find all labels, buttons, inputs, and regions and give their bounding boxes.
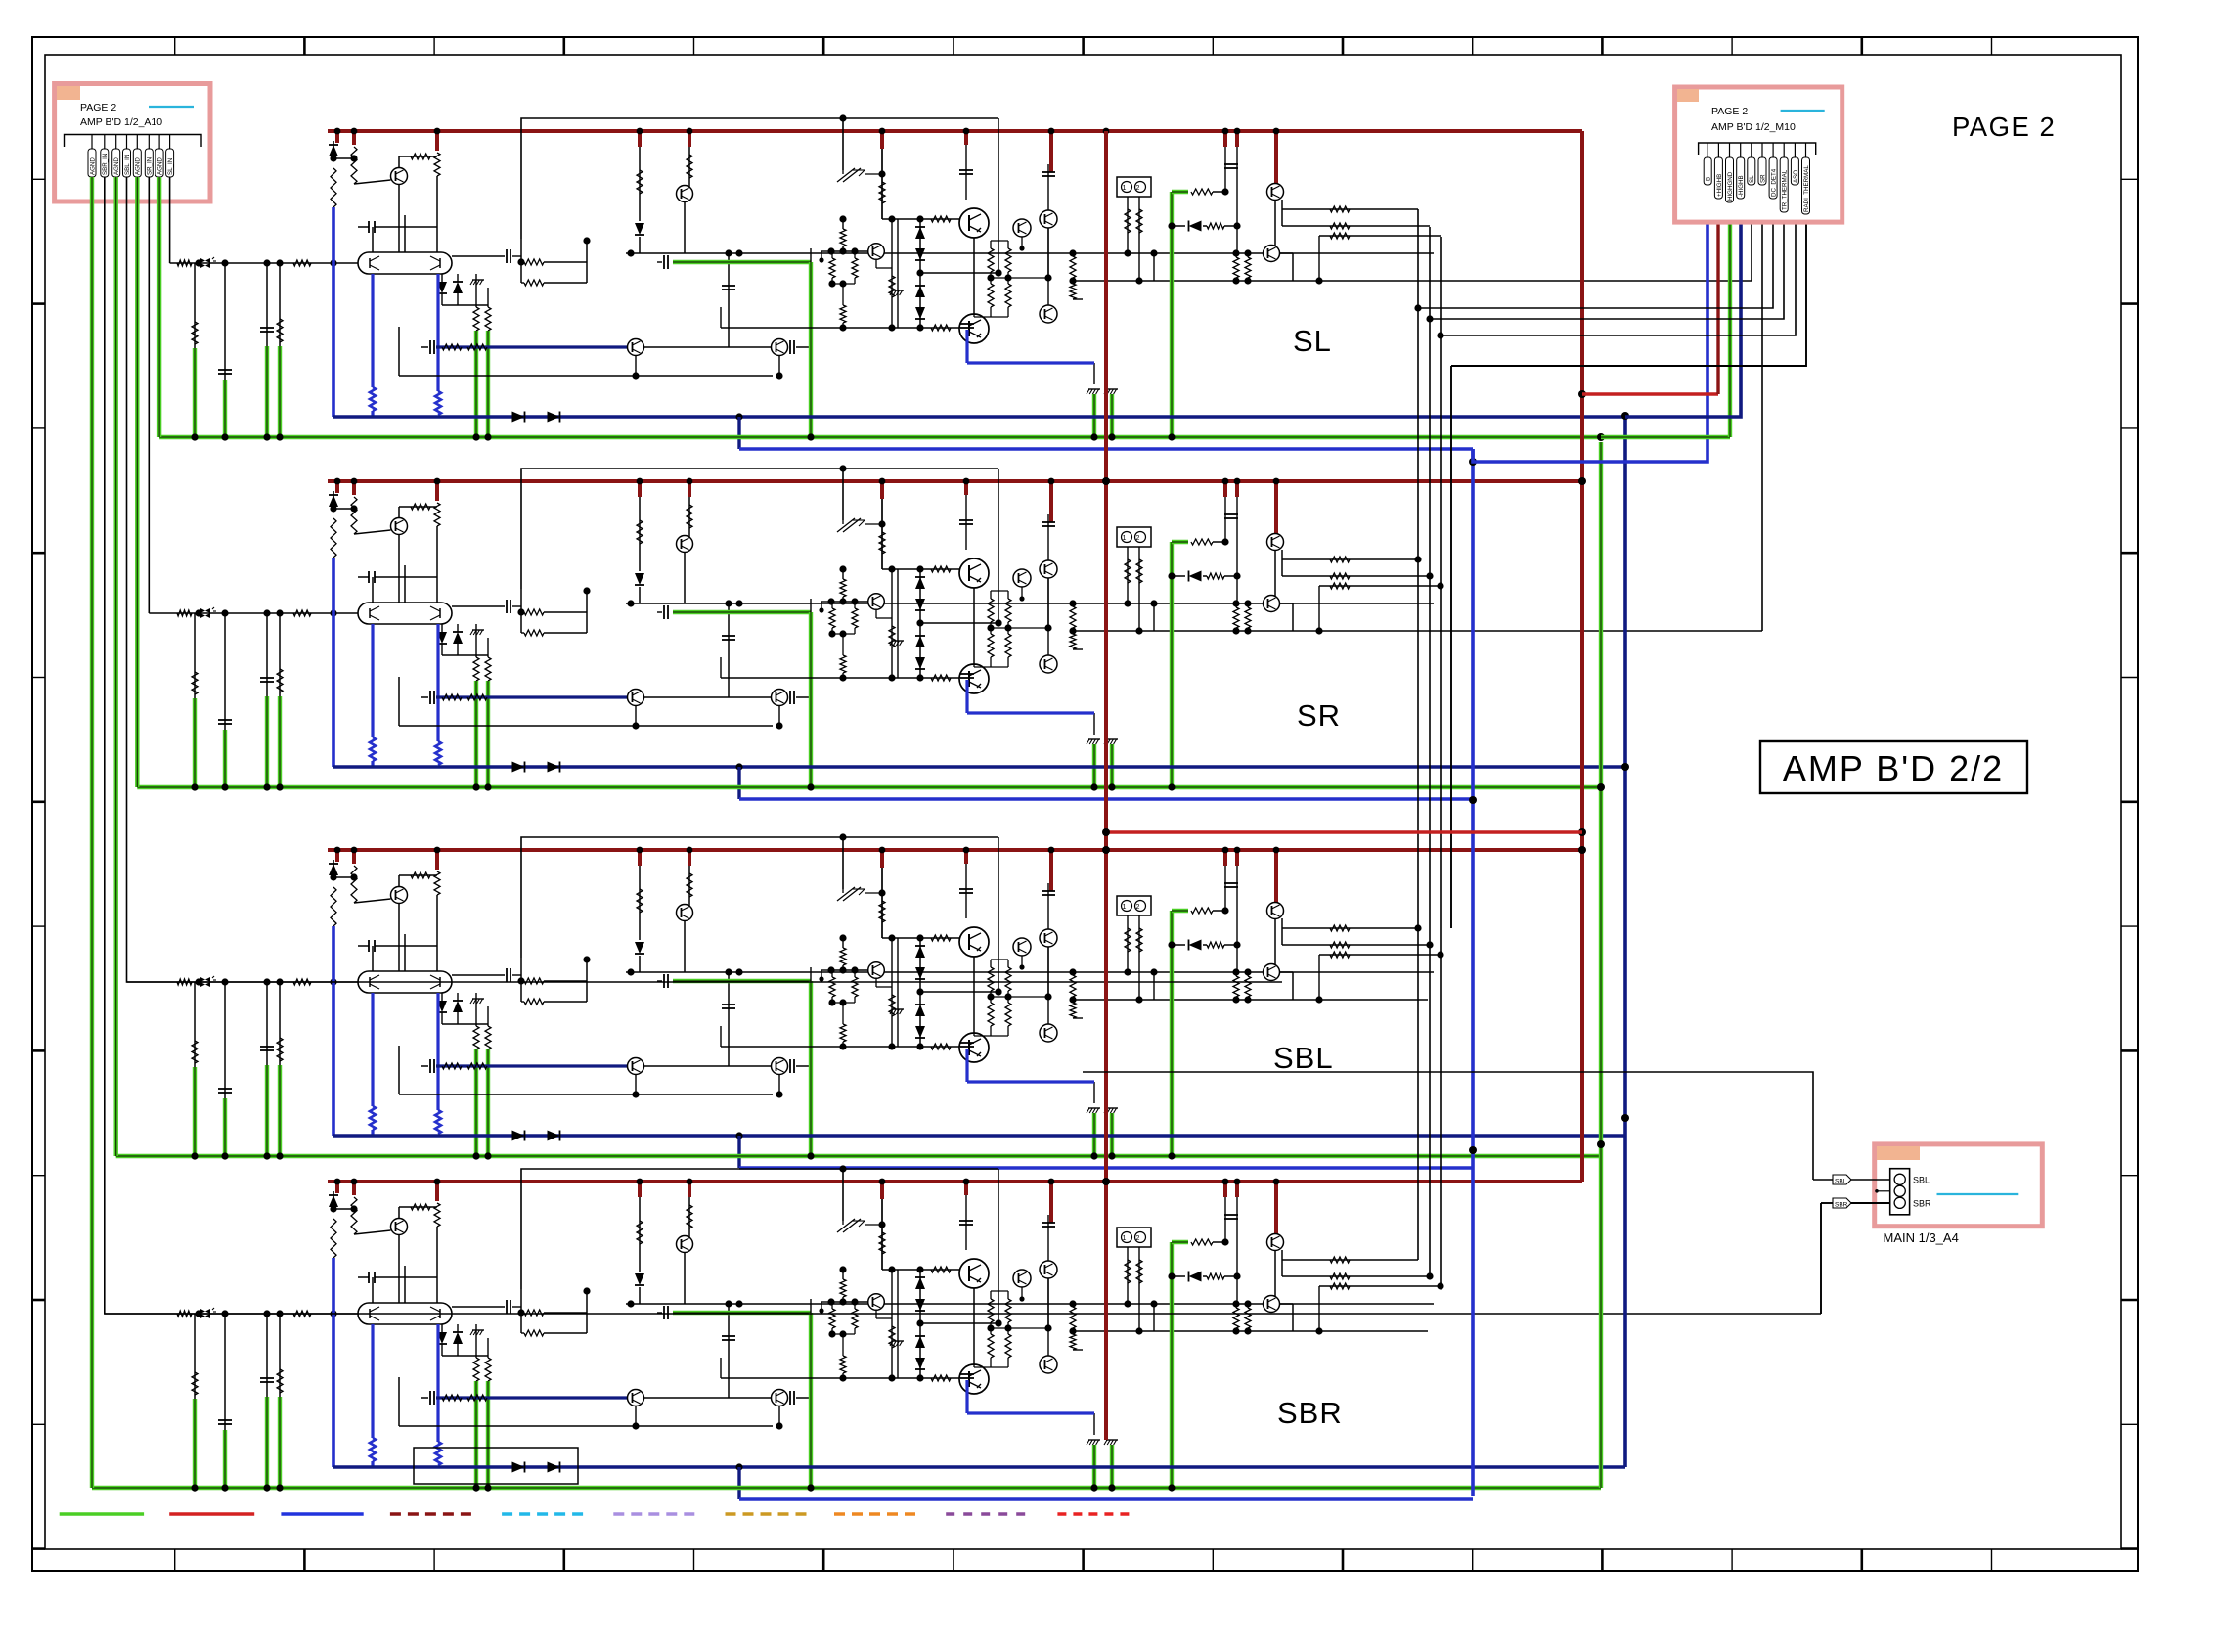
svg-text:2: 2 xyxy=(1136,1235,1140,1242)
svg-text:-B: -B xyxy=(1706,177,1712,183)
svg-text:AGND: AGND xyxy=(157,157,164,175)
svg-text:ASO: ASO xyxy=(1793,170,1799,183)
svg-text:HIGHGND: HIGHGND xyxy=(1727,171,1734,201)
svg-text:1: 1 xyxy=(1123,535,1127,542)
svg-text:SBL: SBL xyxy=(1273,1041,1334,1075)
svg-text:SBL: SBL xyxy=(1913,1176,1930,1185)
svg-text:SBR: SBR xyxy=(1277,1396,1343,1430)
svg-text:PAGE 2: PAGE 2 xyxy=(80,102,116,113)
svg-text:SBL: SBL xyxy=(1835,1179,1847,1185)
svg-text:SR: SR xyxy=(1297,698,1341,733)
svg-text:+HIGHB: +HIGHB xyxy=(1716,174,1723,197)
svg-text:1: 1 xyxy=(1123,185,1127,192)
svg-text:AMP B'D 1/2_A10: AMP B'D 1/2_A10 xyxy=(80,116,162,128)
svg-text:AGND: AGND xyxy=(113,157,120,175)
svg-text:-HIGHB: -HIGHB xyxy=(1738,175,1745,197)
svg-text:SBL_IN: SBL_IN xyxy=(124,155,131,175)
svg-text:RADI_THERMAL: RADI_THERMAL xyxy=(1803,165,1810,212)
svg-text:1: 1 xyxy=(1123,1235,1127,1242)
svg-text:SL: SL xyxy=(1749,175,1755,183)
svg-text:AGND: AGND xyxy=(135,157,142,175)
svg-text:AMP B'D 1/2_M10: AMP B'D 1/2_M10 xyxy=(1711,121,1796,133)
svg-text:SL_IN: SL_IN xyxy=(167,158,174,175)
svg-text:DC_DET4: DC_DET4 xyxy=(1771,168,1778,197)
svg-text:SL: SL xyxy=(1293,324,1332,358)
svg-text:1: 1 xyxy=(1123,904,1127,911)
svg-text:AMP B'D 2/2: AMP B'D 2/2 xyxy=(1783,748,2004,788)
svg-text:SBR_IN: SBR_IN xyxy=(102,154,109,175)
svg-text:SBR: SBR xyxy=(1835,1202,1848,1209)
svg-text:2: 2 xyxy=(1136,185,1140,192)
svg-text:2: 2 xyxy=(1136,535,1140,542)
svg-text:MAIN 1/3_A4: MAIN 1/3_A4 xyxy=(1884,1230,1959,1245)
svg-text:TR_THERMAL: TR_THERMAL xyxy=(1782,169,1789,210)
svg-text:SR_IN: SR_IN xyxy=(147,157,154,175)
svg-text:AGND: AGND xyxy=(89,157,96,175)
svg-text:SBR: SBR xyxy=(1913,1199,1931,1209)
svg-text:PAGE 2: PAGE 2 xyxy=(1711,106,1748,117)
svg-text:PAGE 2: PAGE 2 xyxy=(1952,112,2056,142)
svg-text:SR: SR xyxy=(1759,174,1766,183)
svg-text:2: 2 xyxy=(1136,904,1140,911)
